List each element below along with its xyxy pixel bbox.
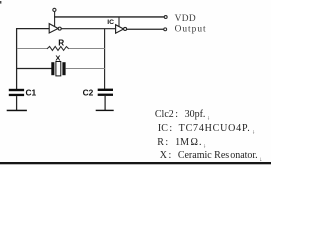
svg-text:X: X bbox=[55, 53, 60, 62]
wire: X line left segment bbox=[16, 68, 51, 70]
capacitor C1: bottom plate bbox=[9, 94, 24, 96]
ceramic resonator X: body bbox=[56, 62, 61, 76]
ceramic resonator X: right plate bbox=[62, 62, 65, 75]
svg-text:VDD: VDD bbox=[175, 14, 196, 24]
wire: C1 to ground bbox=[16, 96, 18, 110]
svg-text:C1: C1 bbox=[26, 88, 37, 98]
terminal VDD bbox=[164, 16, 167, 19]
svg-text:Clc2:30pf.↓: Clc2:30pf.↓ bbox=[155, 109, 210, 122]
svg-text:C2: C2 bbox=[83, 88, 94, 98]
svg-text:R: R bbox=[58, 38, 64, 47]
node B: output net right rail bbox=[104, 29, 106, 89]
resistor R: zigzag bbox=[47, 46, 69, 50]
wire: VDD pin drop to U1 bbox=[54, 11, 56, 27]
bottom table border bbox=[0, 162, 271, 164]
wire: X line right segment bbox=[66, 68, 105, 70]
wire: VDD rail horizontal bbox=[54, 16, 164, 18]
ground under C1 bbox=[7, 110, 27, 112]
node A: input net left rail bbox=[16, 28, 18, 89]
ceramic resonator X: left plate bbox=[51, 62, 54, 75]
op-amp U1: inverter 1 bbox=[49, 24, 58, 33]
wire: VDD pin drop to U2 bbox=[118, 17, 120, 28]
terminal: open circle top (VDD pin) bbox=[53, 8, 56, 11]
wire: U2 output to Output terminal bbox=[127, 28, 164, 30]
svg-text:X:Ceramic Resonator.↓: X:Ceramic Resonator.↓ bbox=[160, 150, 262, 163]
svg-text:Output: Output bbox=[175, 24, 207, 34]
svg-text:IC: IC bbox=[107, 19, 114, 26]
capacitor C2: bottom plate bbox=[98, 94, 113, 96]
wire: R line left segment bbox=[17, 48, 47, 50]
ground under C2 bbox=[96, 110, 114, 111]
wire: U1 output to U2 input bbox=[61, 28, 115, 30]
capacitor C1: top plate bbox=[9, 89, 24, 91]
capacitor C2: top plate bbox=[98, 89, 113, 91]
svg-text:IC:TC74HCUO4P.↓: IC:TC74HCUO4P.↓ bbox=[158, 123, 255, 136]
border fragment top-left edge bbox=[0, 1, 1, 4]
U1 output bubble bbox=[58, 27, 61, 30]
terminal Output bbox=[164, 28, 167, 31]
wire: input line to U1 bbox=[16, 28, 49, 30]
svg-text:R:1MΩ.↓: R:1MΩ.↓ bbox=[157, 137, 206, 150]
wire: C2 to ground bbox=[104, 96, 106, 110]
op-amp U2: inverter 2 (IC) bbox=[116, 25, 124, 34]
U2 output bubble bbox=[124, 27, 127, 30]
wire: R line right segment bbox=[69, 48, 105, 50]
